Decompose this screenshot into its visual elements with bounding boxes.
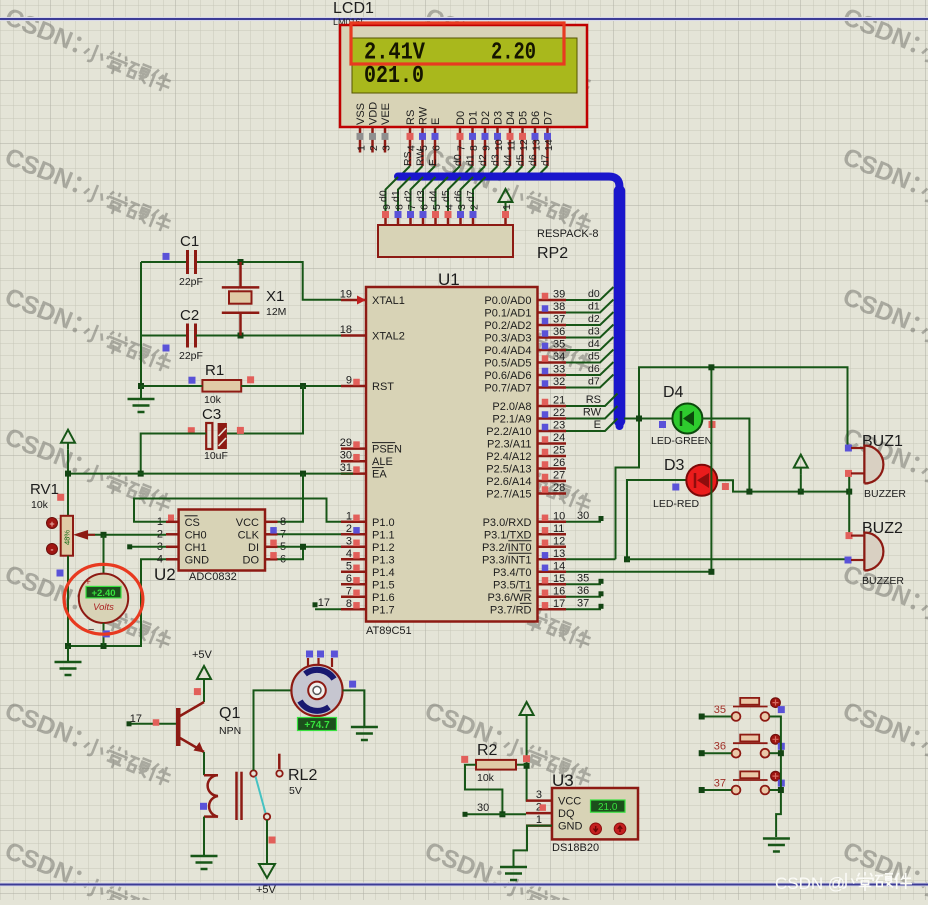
LED D4 (651, 384, 716, 447)
transistor Q1 (176, 702, 241, 753)
crystal X1 (222, 262, 287, 336)
svg-text:GND: GND (185, 554, 210, 566)
svg-text:021.0: 021.0 (364, 63, 424, 90)
LCD display text row2 (364, 63, 424, 90)
sheet border line bottom (0, 883, 928, 887)
svg-text:d0: d0 (588, 288, 600, 300)
svg-text:R2: R2 (477, 742, 498, 759)
svg-text:8: 8 (346, 598, 352, 610)
RP2 pin 1 (501, 204, 513, 225)
svg-text:DO: DO (243, 554, 260, 566)
wire button K3 left (699, 787, 732, 793)
svg-text:d7: d7 (540, 154, 552, 166)
ADC U2 body (179, 510, 265, 571)
wire Q1 collector (194, 686, 204, 702)
svg-text:8: 8 (280, 516, 286, 528)
svg-text:E: E (594, 419, 601, 431)
U2 pins (157, 515, 286, 567)
svg-text:LED-GREEN: LED-GREEN (651, 435, 712, 447)
svg-text:Volts: Volts (93, 602, 114, 613)
svg-text:3: 3 (381, 145, 393, 151)
svg-text:13: 13 (553, 548, 565, 560)
svg-text:10: 10 (493, 139, 505, 151)
svg-text:16: 16 (553, 585, 565, 597)
annotation circle around voltmeter (64, 564, 143, 634)
wire XTAL2 net (141, 333, 341, 339)
svg-text:5: 5 (346, 560, 352, 572)
wire P3.4 long (566, 364, 714, 575)
U3 pins (526, 789, 583, 833)
wire U2 DI DO to P1.2 (278, 544, 342, 560)
LED D3 (653, 457, 729, 510)
wire P3.3 to BUZ2 (566, 558, 845, 560)
wire U2 CH1 dangling (127, 544, 166, 549)
svg-text:29: 29 (340, 437, 352, 449)
wires P3.5-P3.7 nets 35 36 37 (566, 572, 604, 609)
svg-text:36: 36 (577, 585, 589, 597)
svg-text:3: 3 (536, 789, 542, 801)
svg-text:12M: 12M (266, 306, 286, 318)
svg-text:d5: d5 (440, 190, 452, 202)
svg-text:9: 9 (481, 145, 493, 151)
svg-text:D0: D0 (455, 111, 467, 125)
wire bus entries from LCD (398, 166, 548, 179)
svg-text:DI: DI (248, 542, 259, 554)
power +5V arrow right (794, 455, 808, 492)
svg-text:17: 17 (553, 598, 565, 610)
svg-text:+: + (49, 519, 54, 529)
svg-text:7: 7 (406, 204, 418, 210)
LCD pin stubs and numbers (356, 127, 556, 166)
svg-text:CH0: CH0 (185, 529, 207, 541)
svg-text:NPN: NPN (219, 725, 241, 737)
svg-text:21: 21 (553, 395, 565, 407)
svg-text:+5V: +5V (192, 649, 213, 661)
svg-text:P3.3/INT1: P3.3/INT1 (482, 554, 532, 566)
svg-text:RW: RW (583, 407, 602, 419)
svg-text:d5: d5 (588, 351, 600, 363)
svg-text:XTAL2: XTAL2 (372, 331, 405, 343)
svg-text:P1.2: P1.2 (372, 542, 395, 554)
wire +5V to R2 and VCC (516, 722, 530, 801)
power +5V arrow Q1 (192, 649, 213, 686)
data bus (398, 177, 620, 427)
svg-text:17: 17 (318, 597, 330, 609)
resistor R1 (189, 362, 255, 406)
svg-text:48%: 48% (63, 530, 72, 545)
svg-text:d6: d6 (527, 154, 539, 166)
wire pot bottom (65, 556, 166, 649)
wire XTAL1 net (141, 259, 366, 305)
svg-text:36: 36 (553, 326, 565, 338)
svg-text:30: 30 (340, 450, 352, 462)
U2 labels (154, 565, 237, 584)
svg-text:d1: d1 (465, 154, 477, 166)
svg-text:10k: 10k (204, 394, 222, 406)
LCD LCD1 labels (333, 0, 374, 27)
svg-text:P2.6/A14: P2.6/A14 (486, 476, 531, 488)
svg-text:ADC0832: ADC0832 (189, 571, 237, 583)
svg-text:P1.7: P1.7 (372, 604, 395, 616)
svg-text:D5: D5 (518, 111, 530, 125)
svg-text:RST: RST (372, 381, 394, 393)
LCD display text row1 (364, 40, 536, 67)
svg-text:D3: D3 (664, 457, 685, 474)
svg-text:11: 11 (506, 140, 518, 151)
svg-text:P1.3: P1.3 (372, 554, 395, 566)
svg-text:12: 12 (553, 535, 565, 547)
svg-text:P0.0/AD0: P0.0/AD0 (484, 295, 531, 307)
svg-text:P1.0: P1.0 (372, 517, 395, 529)
svg-text:39: 39 (553, 289, 565, 301)
svg-text:30: 30 (577, 510, 589, 522)
relay RL2 switch (250, 754, 282, 820)
svg-text:d3: d3 (415, 190, 427, 202)
svg-text:22: 22 (553, 407, 565, 419)
svg-text:d4: d4 (502, 154, 514, 166)
svg-text:32: 32 (553, 376, 565, 388)
svg-text:10k: 10k (31, 499, 49, 511)
svg-text:GND: GND (558, 821, 583, 833)
U3 buttons (590, 823, 626, 835)
potentiometer RV1 (30, 481, 73, 577)
watermark bottom right (775, 872, 912, 893)
wires P0 to bus with d0-d7 labels (566, 287, 614, 388)
svg-text:35: 35 (714, 704, 726, 716)
svg-text:RP2: RP2 (537, 245, 568, 262)
svg-text:D4: D4 (663, 384, 684, 401)
svg-text:VSS: VSS (355, 103, 367, 125)
svg-text:12: 12 (518, 139, 530, 151)
wire EA junction to U2 VCC (277, 474, 303, 522)
svg-text:35: 35 (553, 339, 565, 351)
svg-text:P0.2/AD2: P0.2/AD2 (484, 320, 531, 332)
svg-text:PSEN: PSEN (372, 444, 402, 456)
svg-text:VDD: VDD (368, 102, 380, 125)
svg-text:22pF: 22pF (179, 276, 203, 288)
motor (291, 651, 356, 717)
svg-text:4: 4 (444, 204, 456, 210)
wire Q1 base net 17 (127, 713, 177, 726)
wire button rail to ground (769, 717, 784, 838)
push button K3 (714, 771, 785, 794)
U1 left pin stubs (340, 289, 405, 617)
svg-text:P1.6: P1.6 (372, 592, 395, 604)
svg-text:14: 14 (543, 139, 555, 151)
wire net D4/D3/BUZ1 (616, 367, 848, 559)
svg-text:P3.5/T1: P3.5/T1 (493, 579, 532, 591)
svg-text:38: 38 (553, 301, 565, 313)
svg-text:4: 4 (346, 548, 352, 560)
capacitor C2 (163, 307, 203, 362)
svg-text:14: 14 (553, 560, 565, 572)
svg-text:11: 11 (553, 523, 564, 535)
buzzer BUZ1 (845, 433, 907, 500)
svg-text:RW: RW (418, 106, 430, 125)
svg-text:P2.7/A15: P2.7/A15 (486, 489, 531, 501)
svg-text:ALE: ALE (372, 456, 393, 468)
resistor R2 (461, 742, 530, 784)
wire button K1 left (699, 714, 732, 720)
capacitor C1 (163, 233, 203, 288)
wire switch NO to +5V (267, 820, 276, 857)
svg-text:RS: RS (402, 151, 414, 166)
svg-text:X1: X1 (266, 288, 284, 305)
svg-text:P2.4/A12: P2.4/A12 (486, 451, 531, 463)
svg-text:AT89C51: AT89C51 (366, 625, 412, 637)
power +5V arrow U3 (520, 702, 534, 722)
svg-text:d2: d2 (477, 154, 489, 166)
svg-text:8: 8 (468, 145, 480, 151)
svg-text:d2: d2 (403, 190, 415, 202)
svg-text:LCD1: LCD1 (333, 0, 374, 17)
wire C3 left to +5V rail (138, 434, 207, 477)
svg-text:P0.3/AD3: P0.3/AD3 (484, 333, 531, 345)
svg-text:RS: RS (586, 394, 601, 406)
buzzer BUZ2 (845, 520, 905, 587)
svg-text:d3: d3 (490, 154, 502, 166)
power +5V arrow RP2 (499, 189, 513, 211)
svg-text:1: 1 (536, 814, 542, 826)
svg-text:d7: d7 (588, 376, 600, 388)
power +5V arrow left rail (61, 430, 75, 450)
svg-text:P2.3/A11: P2.3/A11 (487, 439, 531, 451)
svg-text:U1: U1 (438, 270, 460, 289)
motor display +74.7 (298, 718, 337, 732)
svg-text:d0: d0 (378, 190, 390, 202)
wire D4 right to +5V (702, 419, 749, 492)
LCD LCD1 body (340, 25, 587, 127)
U1 right pin stubs (482, 289, 566, 617)
wire bus entries to RP2 (386, 177, 486, 211)
svg-text:P3.0/RXD: P3.0/RXD (483, 517, 532, 529)
svg-text:37: 37 (577, 597, 589, 609)
svg-text:+74.7: +74.7 (304, 720, 330, 731)
svg-text:36: 36 (714, 741, 726, 753)
wire D3 branch (624, 480, 686, 562)
svg-text:9: 9 (381, 204, 393, 210)
svg-text:2: 2 (368, 145, 380, 151)
svg-text:8: 8 (394, 204, 406, 210)
voltmeter (79, 535, 128, 646)
power +5V down arrow (256, 857, 277, 896)
svg-text:21.0: 21.0 (598, 802, 618, 813)
capacitor C3 (188, 406, 244, 462)
svg-text:d4: d4 (428, 190, 440, 202)
svg-text:U3: U3 (552, 771, 574, 790)
svg-text:34: 34 (553, 351, 565, 363)
svg-text:d6: d6 (453, 190, 465, 202)
svg-text:D3: D3 (493, 111, 505, 125)
svg-text:d0: d0 (452, 154, 464, 166)
U3 labels (552, 771, 599, 854)
svg-text:1: 1 (501, 204, 513, 210)
svg-text:P0.4/AD4: P0.4/AD4 (484, 345, 531, 357)
ground G3 (191, 856, 218, 869)
relay RL2 labels (288, 767, 317, 797)
svg-text:6: 6 (431, 145, 443, 151)
svg-text:P2.5/A13: P2.5/A13 (486, 464, 531, 476)
wire DQ net 30 (463, 802, 527, 817)
svg-text:VCC: VCC (558, 796, 581, 808)
ground G4 (351, 727, 378, 740)
svg-text:26: 26 (553, 457, 565, 469)
svg-text:P0.7/AD7: P0.7/AD7 (484, 383, 531, 395)
svg-text:37: 37 (553, 314, 565, 326)
svg-text:24: 24 (553, 432, 565, 444)
svg-text:5: 5 (431, 204, 443, 210)
svg-text:2: 2 (469, 204, 481, 210)
svg-text:CSDN @: CSDN @ (775, 874, 845, 893)
svg-text:d5: d5 (515, 154, 527, 166)
svg-text:P3.7/RD: P3.7/RD (490, 604, 532, 616)
svg-text:CH1: CH1 (185, 542, 207, 554)
resistor pack RP2 body (378, 225, 513, 257)
annotation rectangle (351, 23, 564, 64)
svg-text:D2: D2 (480, 111, 492, 125)
svg-text:d7: d7 (465, 190, 477, 202)
svg-text:P1.5: P1.5 (372, 579, 395, 591)
svg-text:37: 37 (714, 777, 726, 789)
svg-text:7: 7 (456, 145, 468, 151)
svg-text:XTAL1: XTAL1 (372, 295, 405, 307)
svg-text:+: + (85, 577, 91, 588)
svg-text:15: 15 (553, 573, 565, 585)
svg-text:P1.1: P1.1 (372, 529, 395, 541)
svg-text:+2.40: +2.40 (91, 588, 115, 599)
svg-text:4: 4 (157, 553, 163, 565)
svg-text:D7: D7 (543, 111, 555, 125)
svg-text:5V: 5V (289, 785, 302, 797)
svg-text:18: 18 (340, 324, 352, 336)
svg-text:EA: EA (372, 469, 387, 481)
LCD pin name labels (355, 102, 555, 125)
U3 display 21.0 (591, 800, 626, 813)
svg-text:d6: d6 (588, 363, 600, 375)
svg-text:9: 9 (346, 375, 352, 387)
svg-text:P1.4: P1.4 (372, 567, 395, 579)
ground G1 (128, 386, 155, 412)
svg-text:VCC: VCC (236, 517, 259, 529)
svg-text:30: 30 (477, 802, 489, 814)
svg-text:2: 2 (157, 528, 163, 540)
svg-text:P2.2/A10: P2.2/A10 (486, 426, 531, 438)
svg-text:17: 17 (130, 713, 142, 725)
svg-text:E: E (430, 118, 442, 125)
svg-text:10k: 10k (477, 772, 495, 784)
svg-text:D1: D1 (468, 111, 480, 125)
svg-text:d4: d4 (588, 338, 600, 350)
svg-text:VEE: VEE (380, 103, 392, 125)
svg-text:25: 25 (553, 445, 565, 457)
svg-text:CLK: CLK (238, 529, 260, 541)
svg-text:1: 1 (356, 145, 368, 151)
svg-text:RESPACK-8: RESPACK-8 (537, 228, 599, 240)
wires P2.0-P2.2 to bus RS RW E (566, 394, 618, 432)
svg-text:19: 19 (340, 289, 352, 301)
ground G6 (763, 839, 790, 852)
wire BUZ1 pins (848, 473, 850, 535)
ground G5 (500, 867, 527, 880)
push button K1 (714, 698, 785, 721)
svg-text:P3.4/T0: P3.4/T0 (493, 567, 532, 579)
svg-text:BUZZER: BUZZER (862, 575, 904, 587)
svg-text:P3.1/TXD: P3.1/TXD (484, 529, 532, 541)
svg-text:LED-RED: LED-RED (653, 498, 700, 510)
net labels above bus (402, 149, 552, 166)
net labels below bus (378, 190, 478, 202)
svg-text:C3: C3 (202, 406, 221, 423)
wire button K2 left (699, 750, 732, 756)
svg-text:-: - (51, 545, 54, 555)
svg-text:C1: C1 (180, 233, 199, 250)
svg-text:P3.6/WR: P3.6/WR (487, 592, 531, 604)
svg-text:E: E (427, 159, 439, 166)
relay RL2 coil (200, 772, 242, 820)
U1 labels (366, 270, 460, 637)
svg-text:1: 1 (346, 510, 352, 522)
wire motor right to ground (343, 690, 365, 727)
svg-text:DQ: DQ (558, 808, 575, 820)
svg-text:P0.5/AD5: P0.5/AD5 (484, 358, 531, 370)
wire U3 GND to ground (514, 826, 553, 867)
push button K2 (714, 734, 785, 757)
ground G2 (55, 646, 82, 675)
wire R2 left to DQ (465, 765, 505, 818)
svg-text:P2.1/A9: P2.1/A9 (492, 414, 531, 426)
svg-text:33: 33 (553, 364, 565, 376)
wire U2 CS to P1.0 (134, 499, 341, 522)
wire switch common from motor (254, 690, 292, 770)
svg-text:RW: RW (415, 149, 427, 166)
svg-text:Q1: Q1 (219, 705, 240, 722)
svg-text:28: 28 (553, 482, 565, 494)
svg-text:RL2: RL2 (288, 767, 317, 784)
wire D3 right to +5V (717, 480, 749, 491)
svg-text:6: 6 (346, 573, 352, 585)
svg-text:13: 13 (531, 139, 543, 151)
svg-text:3: 3 (346, 535, 352, 547)
svg-text:3: 3 (456, 204, 468, 210)
wire +5V rail EA (65, 450, 353, 516)
wire Q1 emitter to coil (203, 752, 205, 775)
svg-text:6: 6 (419, 204, 431, 210)
svg-text:D6: D6 (530, 111, 542, 125)
svg-text:+5V: +5V (256, 884, 277, 896)
microcontroller U1 body (366, 287, 538, 622)
RP2 labels (537, 228, 599, 262)
svg-text:10uF: 10uF (204, 450, 228, 462)
svg-text:23: 23 (553, 420, 565, 432)
svg-text:7: 7 (346, 585, 352, 597)
svg-text:22pF: 22pF (179, 350, 203, 362)
svg-text:RV1: RV1 (30, 481, 59, 498)
svg-text:DS18B20: DS18B20 (552, 842, 599, 854)
svg-text:27: 27 (553, 470, 565, 482)
svg-text:RS: RS (405, 110, 417, 125)
wire pot wiper to U2 CH0 (73, 530, 166, 540)
IC U3 body (552, 788, 638, 839)
svg-text:BUZZER: BUZZER (864, 488, 906, 500)
svg-text:P3.2/INT0: P3.2/INT0 (482, 542, 532, 554)
svg-text:P2.0/A8: P2.0/A8 (492, 401, 531, 413)
svg-text:35: 35 (577, 572, 589, 584)
svg-text:P0.6/AD6: P0.6/AD6 (484, 370, 531, 382)
RP2 pin stubs (381, 204, 481, 225)
svg-text:d1: d1 (588, 301, 600, 313)
svg-text:R1: R1 (205, 362, 224, 379)
wire P3.0 net 30 (566, 510, 604, 522)
